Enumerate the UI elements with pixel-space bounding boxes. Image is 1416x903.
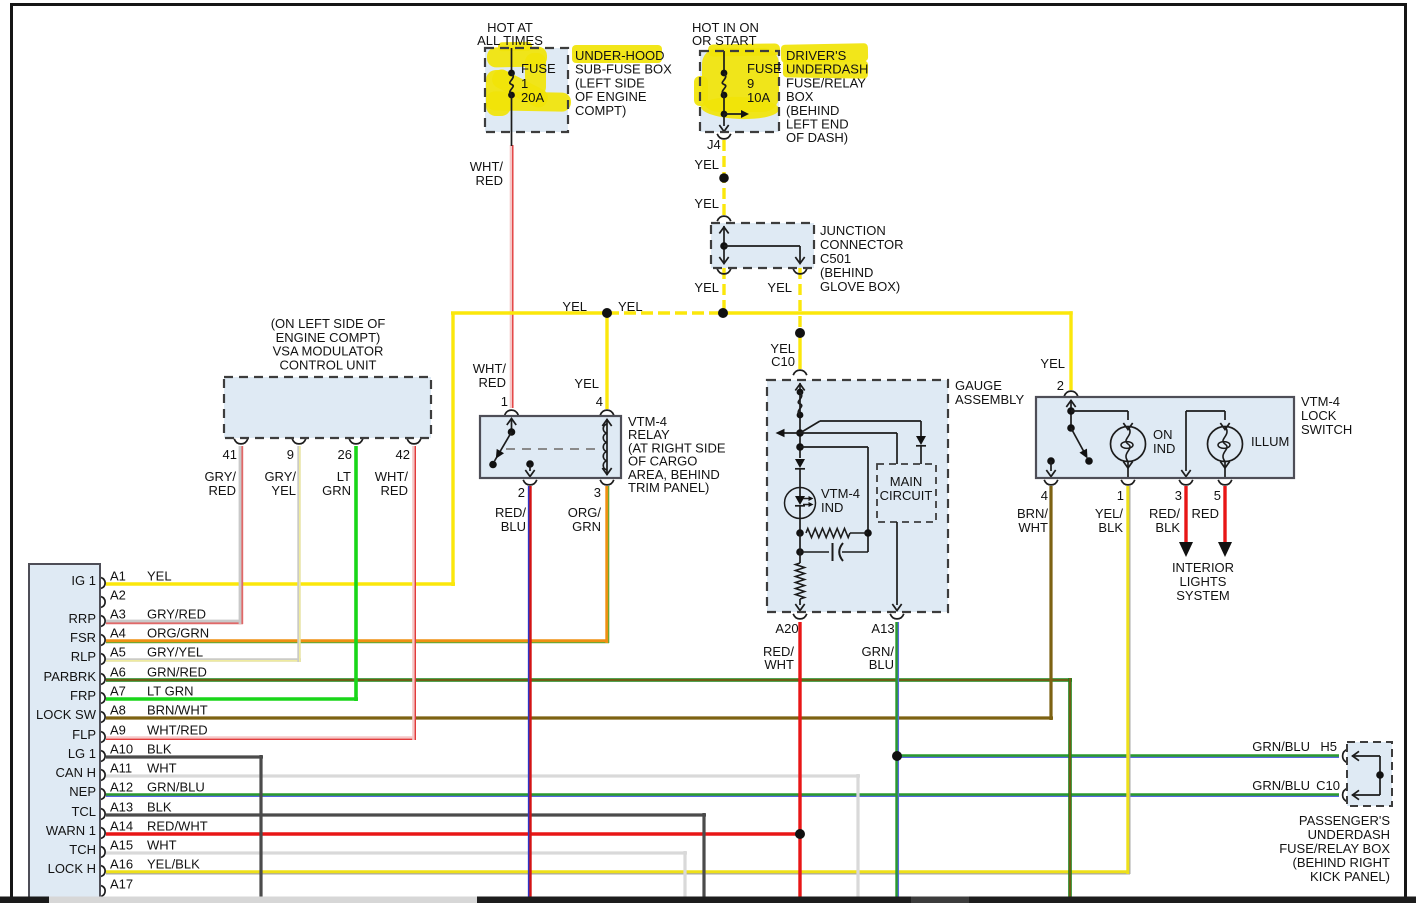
svg-text:WHT/: WHT/: [375, 469, 409, 484]
svg-text:BLU: BLU: [501, 519, 526, 534]
svg-text:LG 1: LG 1: [68, 746, 96, 761]
svg-text:YEL: YEL: [1040, 356, 1065, 371]
svg-text:(BEHIND RIGHT: (BEHIND RIGHT: [1293, 855, 1391, 870]
svg-text:1: 1: [501, 394, 508, 409]
svg-text:OF DASH): OF DASH): [786, 130, 848, 145]
svg-text:A10: A10: [110, 742, 133, 757]
svg-text:BRN/: BRN/: [1017, 506, 1048, 521]
svg-text:VTM-4: VTM-4: [821, 486, 860, 501]
svg-text:YEL: YEL: [694, 280, 719, 295]
svg-text:LT GRN: LT GRN: [147, 684, 193, 699]
svg-text:KICK PANEL): KICK PANEL): [1310, 869, 1390, 884]
svg-text:A13: A13: [871, 621, 894, 636]
svg-text:YEL: YEL: [147, 569, 172, 584]
svg-text:9: 9: [747, 76, 754, 91]
svg-text:CAN H: CAN H: [56, 765, 96, 780]
svg-text:A5: A5: [110, 645, 126, 660]
svg-text:4: 4: [596, 394, 603, 409]
svg-text:RED: RED: [476, 173, 503, 188]
svg-text:ON: ON: [1153, 427, 1173, 442]
svg-text:42: 42: [396, 447, 410, 462]
svg-text:3: 3: [594, 485, 601, 500]
svg-text:TCH: TCH: [69, 842, 96, 857]
svg-text:BLK: BLK: [1155, 520, 1180, 535]
svg-text:ALL TIMES: ALL TIMES: [477, 33, 543, 48]
svg-text:WHT/: WHT/: [470, 159, 504, 174]
svg-text:CONNECTOR: CONNECTOR: [820, 237, 904, 252]
svg-text:A16: A16: [110, 857, 133, 872]
svg-text:J4: J4: [707, 137, 721, 152]
svg-text:TRIM PANEL): TRIM PANEL): [628, 480, 709, 495]
svg-text:WHT: WHT: [147, 761, 177, 776]
svg-text:A20: A20: [775, 621, 798, 636]
svg-text:A9: A9: [110, 723, 126, 738]
svg-text:IND: IND: [1153, 441, 1175, 456]
svg-text:INTERIOR: INTERIOR: [1172, 560, 1234, 575]
svg-text:GRN: GRN: [572, 519, 601, 534]
svg-text:FUSE: FUSE: [747, 61, 782, 76]
svg-text:IG 1: IG 1: [71, 573, 96, 588]
svg-text:YEL: YEL: [694, 196, 719, 211]
svg-text:5: 5: [1214, 488, 1221, 503]
svg-text:WHT: WHT: [147, 838, 177, 853]
svg-text:41: 41: [223, 447, 237, 462]
svg-text:RED: RED: [1192, 506, 1219, 521]
svg-text:SYSTEM: SYSTEM: [1176, 588, 1229, 603]
svg-text:26: 26: [338, 447, 352, 462]
svg-text:GRY/: GRY/: [204, 469, 236, 484]
svg-text:RED: RED: [479, 375, 506, 390]
svg-text:BRN/WHT: BRN/WHT: [147, 703, 208, 718]
svg-text:COMPT): COMPT): [575, 103, 626, 118]
svg-text:ENGINE COMPT): ENGINE COMPT): [276, 330, 381, 345]
svg-text:RED: RED: [209, 483, 236, 498]
svg-text:IND: IND: [821, 500, 843, 515]
svg-text:BLK: BLK: [147, 742, 172, 757]
svg-text:YEL: YEL: [694, 157, 719, 172]
svg-text:A6: A6: [110, 665, 126, 680]
svg-text:A1: A1: [110, 569, 126, 584]
svg-text:YEL: YEL: [574, 376, 599, 391]
svg-text:FUSE/RELAY BOX: FUSE/RELAY BOX: [1279, 841, 1390, 856]
svg-text:YEL: YEL: [271, 483, 296, 498]
svg-text:20A: 20A: [521, 90, 544, 105]
svg-text:YEL: YEL: [618, 299, 643, 314]
svg-text:C10: C10: [771, 354, 795, 369]
svg-text:10A: 10A: [747, 90, 770, 105]
svg-text:A3: A3: [110, 607, 126, 622]
svg-text:LOCK: LOCK: [1301, 408, 1337, 423]
svg-text:GRY/YEL: GRY/YEL: [147, 645, 203, 660]
svg-text:UNDERDASH: UNDERDASH: [1308, 827, 1390, 842]
svg-text:LOCK SW: LOCK SW: [36, 707, 97, 722]
svg-text:GRN: GRN: [322, 483, 351, 498]
svg-text:1: 1: [1117, 488, 1124, 503]
svg-text:WHT: WHT: [764, 657, 794, 672]
svg-text:RED: RED: [381, 483, 408, 498]
svg-text:LT: LT: [337, 469, 351, 484]
svg-text:FLP: FLP: [72, 727, 96, 742]
svg-text:FSR: FSR: [70, 630, 96, 645]
svg-text:GLOVE BOX): GLOVE BOX): [820, 279, 900, 294]
svg-text:4: 4: [1041, 488, 1048, 503]
svg-text:GRY/: GRY/: [264, 469, 296, 484]
svg-text:GRN/BLU: GRN/BLU: [1252, 739, 1310, 754]
svg-text:LIGHTS: LIGHTS: [1180, 574, 1227, 589]
svg-text:BLU: BLU: [869, 657, 894, 672]
svg-text:BLK: BLK: [147, 800, 172, 815]
svg-text:RRP: RRP: [69, 611, 96, 626]
svg-text:RED/: RED/: [495, 505, 526, 520]
svg-text:SWITCH: SWITCH: [1301, 422, 1352, 437]
svg-text:RLP: RLP: [71, 649, 96, 664]
svg-text:VSA MODULATOR: VSA MODULATOR: [273, 344, 384, 359]
svg-text:VTM-4: VTM-4: [1301, 394, 1340, 409]
svg-text:A13: A13: [110, 800, 133, 815]
svg-text:ORG/GRN: ORG/GRN: [147, 626, 209, 641]
svg-text:C10: C10: [1316, 778, 1340, 793]
svg-text:FRP: FRP: [70, 688, 96, 703]
svg-text:ILLUM: ILLUM: [1251, 434, 1289, 449]
svg-text:GRY/RED: GRY/RED: [147, 607, 206, 622]
svg-text:NEP: NEP: [69, 784, 96, 799]
svg-text:9: 9: [287, 447, 294, 462]
svg-text:A12: A12: [110, 780, 133, 795]
svg-text:3: 3: [1175, 488, 1182, 503]
svg-text:A2: A2: [110, 588, 126, 603]
svg-text:(BEHIND: (BEHIND: [820, 265, 873, 280]
svg-text:OR START: OR START: [692, 33, 757, 48]
svg-text:LOCK H: LOCK H: [48, 861, 96, 876]
svg-text:ASSEMBLY: ASSEMBLY: [955, 392, 1024, 407]
svg-text:RED/WHT: RED/WHT: [147, 819, 208, 834]
svg-text:BLK: BLK: [1098, 520, 1123, 535]
svg-text:2: 2: [518, 485, 525, 500]
svg-text:YEL/BLK: YEL/BLK: [147, 857, 200, 872]
svg-text:GRN/BLU: GRN/BLU: [1252, 778, 1310, 793]
svg-text:1: 1: [521, 76, 528, 91]
svg-text:WHT/RED: WHT/RED: [147, 723, 208, 738]
svg-text:WARN 1: WARN 1: [46, 823, 96, 838]
svg-text:C501: C501: [820, 251, 851, 266]
svg-text:A15: A15: [110, 838, 133, 853]
svg-text:A4: A4: [110, 626, 126, 641]
svg-text:(ON LEFT SIDE OF: (ON LEFT SIDE OF: [271, 316, 386, 331]
svg-text:CONTROL UNIT: CONTROL UNIT: [279, 357, 376, 372]
svg-text:WHT: WHT: [1018, 520, 1048, 535]
svg-text:GRN/RED: GRN/RED: [147, 665, 207, 680]
svg-text:H5: H5: [1320, 739, 1337, 754]
svg-text:YEL/: YEL/: [1095, 506, 1124, 521]
svg-text:JUNCTION: JUNCTION: [820, 223, 886, 238]
svg-text:A11: A11: [110, 761, 132, 776]
svg-text:A7: A7: [110, 684, 126, 699]
svg-text:PASSENGER'S: PASSENGER'S: [1299, 813, 1390, 828]
svg-text:GAUGE: GAUGE: [955, 378, 1002, 393]
svg-text:PARBRK: PARBRK: [44, 669, 97, 684]
svg-text:GRN/BLU: GRN/BLU: [147, 780, 205, 795]
svg-text:WHT/: WHT/: [473, 361, 507, 376]
svg-text:ORG/: ORG/: [568, 505, 602, 520]
svg-text:YEL: YEL: [767, 280, 792, 295]
svg-text:CIRCUIT: CIRCUIT: [880, 488, 933, 503]
svg-text:TCL: TCL: [71, 804, 96, 819]
svg-text:RED/: RED/: [1149, 506, 1180, 521]
svg-text:YEL: YEL: [562, 299, 587, 314]
svg-text:MAIN: MAIN: [890, 474, 923, 489]
svg-text:A17: A17: [110, 877, 133, 892]
svg-text:FUSE: FUSE: [521, 61, 556, 76]
svg-text:A14: A14: [110, 819, 133, 834]
svg-text:2: 2: [1057, 378, 1064, 393]
svg-text:A8: A8: [110, 703, 126, 718]
